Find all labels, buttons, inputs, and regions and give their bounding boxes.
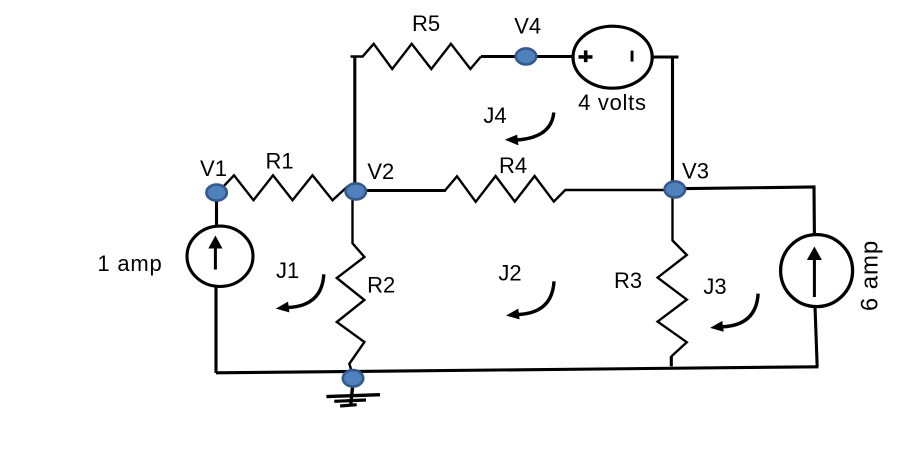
svg-text:1 amp: 1 amp [97, 251, 162, 276]
svg-text:R2: R2 [367, 273, 395, 298]
svg-text:V1: V1 [200, 156, 227, 181]
svg-text:J2: J2 [498, 261, 521, 286]
svg-text:V3: V3 [682, 158, 709, 183]
svg-text:J4: J4 [483, 103, 506, 128]
svg-text:R4: R4 [499, 153, 527, 178]
svg-text:R3: R3 [614, 268, 642, 293]
svg-text:6 amp: 6 amp [857, 240, 884, 311]
svg-text:V4: V4 [514, 14, 541, 39]
svg-text:J3: J3 [703, 274, 726, 299]
svg-text:4 volts: 4 volts [578, 90, 646, 115]
svg-text:J1: J1 [276, 258, 299, 283]
svg-text:R5: R5 [412, 11, 440, 36]
svg-text:R1: R1 [265, 149, 293, 174]
svg-text:V2: V2 [367, 159, 394, 184]
